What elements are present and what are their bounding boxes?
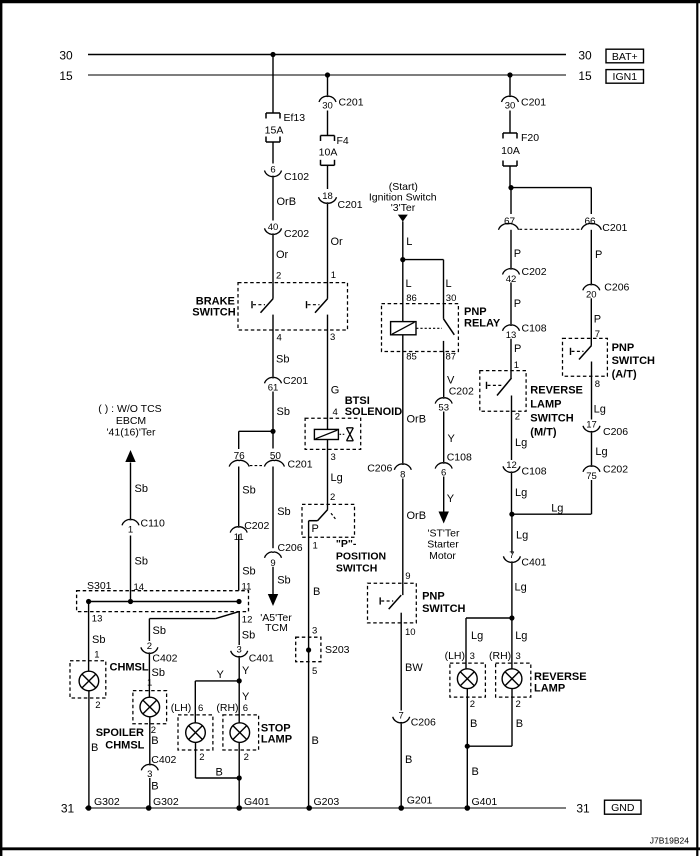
svg-text:1: 1 [94,650,99,661]
wire LH stop to join (B) [196,742,205,778]
svg-text:C102: C102 [284,171,309,183]
wire C402-2 to spoiler lamp (Sb) [147,654,165,697]
svg-text:PNP: PNP [422,591,445,603]
wire branch to relay contact 30 [403,260,457,319]
wire C202 to brake switch (Or) [273,235,289,299]
connector C110 pin 1 [122,517,165,535]
wire S301 to CHMSL (Sb) [89,602,106,672]
svg-text:30: 30 [322,101,333,112]
wire C202-53 to C108-6 (Y) [444,412,456,463]
svg-text:Sb: Sb [242,485,255,497]
wire spoiler lamp to C402-3 (B) [150,717,159,764]
svg-text:S301: S301 [87,580,112,592]
svg-text:Y: Y [242,665,250,677]
svg-text:Sb: Sb [276,354,289,366]
svg-text:C401: C401 [249,652,274,664]
svg-text:2: 2 [515,412,520,423]
svg-text:8: 8 [595,379,600,390]
wire bus15 to C201-30 (wire4) [509,75,511,96]
junction bus30/wire1 [270,52,275,57]
svg-text:C206: C206 [603,426,628,438]
wire C108-13 to reverse lamp switch (P) [511,339,521,378]
connector C201 pin 61 [265,375,309,394]
svg-text:C108: C108 [522,322,547,334]
svg-text:LAMP: LAMP [261,734,292,746]
svg-text:B: B [151,780,158,792]
wire 67 to C202-42 (P) [511,230,521,268]
wire relay87 to C202-53 (V) [444,352,455,398]
wire relay85 to C206-8 (OrB) [403,335,426,464]
connector C402 pin 2 [141,641,178,664]
svg-text:2: 2 [95,700,100,711]
svg-text:C206: C206 [367,462,392,474]
wire S203 to G203 (B) [309,650,319,808]
svg-text:C201: C201 [521,96,546,108]
svg-text:Lg: Lg [515,630,527,642]
svg-text:BTSI: BTSI [345,395,370,407]
svg-text:CHMSL: CHMSL [105,740,144,752]
svg-text:Sb: Sb [277,506,290,518]
svg-text:C402: C402 [152,653,177,665]
connector C206 pin 17 [583,420,628,438]
svg-text:SWITCH: SWITCH [192,306,235,318]
wire to RH stop lamp (Y) [239,681,250,723]
BTSI valve symbol [340,428,354,441]
PNP switch (A/T) box [563,338,608,376]
wire C201-18 to brake switch (Or) [328,204,344,299]
PNP switch box [368,583,417,623]
connector C206 pin 9 [265,542,303,569]
svg-text:4: 4 [333,407,338,418]
svg-text:Y: Y [242,691,250,703]
connector C206 pin 7 [393,711,436,729]
svg-text:IGN1: IGN1 [613,71,638,83]
svg-text:3: 3 [331,452,336,463]
svg-text:C202: C202 [449,385,474,397]
wire to relay coil 86 (L) [403,260,417,322]
connector C202 pin 42 [503,266,547,285]
svg-text:GND: GND [611,802,635,814]
ground G203 [306,796,339,811]
svg-text:C110: C110 [141,517,165,529]
label ST Ter Starter Motor [427,528,460,562]
wire bus15 to C201-30 [327,75,329,96]
svg-text:67: 67 [504,217,516,228]
arrow to starter motor [439,512,449,524]
svg-text:REVERSE: REVERSE [530,384,583,396]
svg-text:Sb: Sb [277,406,290,418]
wire brake sw to BTSI (G) [328,315,340,430]
svg-text:L: L [406,236,412,248]
wire S301 pin12 to spoiler branch [149,612,239,641]
svg-text:6: 6 [243,703,248,714]
svg-text:C401: C401 [521,557,546,569]
svg-text:BAT+: BAT+ [612,51,638,63]
svg-text:3: 3 [237,645,242,656]
svg-text:S203: S203 [325,644,350,656]
svg-text:Lg: Lg [515,581,527,593]
svg-text:31: 31 [61,801,75,815]
label 15 right [578,69,592,83]
fuse F4 10A [319,135,349,166]
svg-text:C108: C108 [522,465,547,477]
svg-text:P: P [514,298,521,310]
svg-text:'41(16)'Ter: '41(16)'Ter [107,426,156,438]
svg-text:1: 1 [331,270,336,281]
lamp STOP RH [223,715,259,750]
svg-text:9: 9 [405,571,410,582]
junction stop lamp split [237,678,242,683]
svg-text:B: B [216,766,223,778]
svg-text:7: 7 [509,550,514,561]
bus 30 (BAT+) horizontal wire [88,54,566,56]
svg-text:C201: C201 [288,459,313,471]
svg-text:Starter: Starter [427,539,459,551]
wire LH reverse to ground join (B) [467,689,479,809]
splice S203 box [296,637,321,662]
svg-text:G: G [331,385,340,397]
BAT+ terminal box [606,49,644,63]
connector C402 pin 3 [141,754,176,780]
svg-text:B: B [91,742,98,754]
wire C108-6 to starter arrow (Y) [444,477,455,512]
connector C202 pin 75 [583,463,628,482]
IGN1 terminal box [606,70,644,84]
junction bus15/wire4 [507,72,512,77]
wire to pin 67 [510,188,512,214]
ground G201 [398,794,432,810]
relay pin labels [406,352,456,363]
svg-text:TCM: TCM [265,622,288,634]
svg-text:4: 4 [277,332,282,343]
svg-text:30: 30 [505,101,516,112]
brake switch contact 2 (wire2 side) [307,299,328,313]
svg-text:(LH): (LH) [171,702,191,714]
label (RH) 6 [216,702,248,714]
GND terminal box [605,800,642,814]
solenoid BTSI coil [314,429,338,439]
svg-text:30: 30 [59,48,73,62]
connector C201 pin 30 (wire2) [319,96,364,111]
wire ignition to relay junction (L) [403,221,413,259]
svg-text:(RH): (RH) [216,702,238,714]
lamp REVERSE LH [450,663,486,697]
wire F20 to junction [509,166,511,188]
svg-text:Ef13: Ef13 [284,112,306,124]
junction reverse ground join [465,744,470,749]
label REVERSE LAMP SWITCH (M/T) [530,384,583,438]
lamp SPOILER CHMSL [133,691,167,724]
label S301 [87,580,112,592]
svg-text:C108: C108 [447,451,472,463]
svg-text:B: B [405,754,412,766]
svg-text:SOLENOID: SOLENOID [345,406,403,418]
connector C202 pin 11 [230,520,269,543]
connector C201 pin 18 (cup) [319,191,363,211]
svg-text:Or: Or [331,236,344,248]
svg-text:86: 86 [406,293,417,304]
svg-text:SWITCH: SWITCH [530,412,573,424]
wire join stop lamps [196,766,240,778]
connector C202 pin 53 [435,385,474,413]
connector C108 pin 12 [503,460,547,477]
label (LH) 3 reverse [445,650,475,662]
svg-text:1: 1 [313,540,318,551]
connector C206 pin 20 [583,282,630,301]
svg-text:LAMP: LAMP [534,682,565,694]
svg-text:(LH): (LH) [445,650,465,662]
svg-text:B: B [313,586,320,598]
svg-text:2: 2 [147,641,152,652]
wire PNP switch to C206-7 (BW) [401,613,423,711]
label W/O TCS EBCM [98,403,161,439]
svg-text:Sb: Sb [277,574,290,586]
svg-text:'3'Ter: '3'Ter [391,202,416,214]
wire C206-9 to TCM arrow (Sb) [273,567,291,595]
svg-text:Y: Y [217,669,225,681]
BTSI solenoid box [305,418,361,449]
svg-text:G203: G203 [314,796,340,808]
P position switch box [302,504,355,537]
wire S301 to C110 (Sb) [131,536,148,602]
wire bus30 to fuse Ef13 [272,55,274,114]
svg-text:10A: 10A [319,146,338,158]
svg-text:Or: Or [276,249,289,261]
svg-text:2: 2 [330,492,335,503]
svg-text:LAMP: LAMP [530,398,561,410]
wire A/T branch merge [512,502,591,514]
svg-text:F4: F4 [337,135,349,147]
svg-text:Lg: Lg [515,487,527,499]
svg-text:10A: 10A [501,145,520,157]
wire C206-7 to G201 (B) [401,723,412,808]
svg-text:85: 85 [406,352,417,363]
svg-text:87: 87 [446,352,457,363]
svg-text:31: 31 [576,801,590,815]
label PNP SWITCH [422,591,465,615]
svg-text:6: 6 [270,164,275,175]
svg-text:C206: C206 [278,542,303,554]
svg-text:C202: C202 [284,228,309,240]
svg-text:40: 40 [268,222,279,233]
wire C201-30 to fuse F4 [327,111,329,136]
svg-text:C202: C202 [603,463,628,475]
wire P-switch to S203 (B) [309,521,321,650]
lamp CHMSL [70,661,106,698]
svg-text:C402: C402 [151,754,176,766]
PNP switch (A/T) contact [571,346,592,360]
svg-text:3: 3 [516,651,521,662]
svg-text:POSITION: POSITION [336,551,386,563]
wire C401-7 to lamp junction (Lg) [512,563,527,618]
svg-text:C206: C206 [604,282,629,294]
arrow to EBCM [125,450,135,462]
bus 15 (IGN1) horizontal wire [88,74,566,76]
svg-text:17: 17 [586,420,597,431]
wire A/T switch to C206-17 (Lg) [592,362,606,420]
connector C201 pins 67/66 (inline pair) [499,217,628,235]
svg-text:B: B [312,735,319,747]
svg-text:Sb: Sb [242,566,255,578]
wire C102 to C202 (OrB) [273,177,296,221]
connector C108 pin 6 [435,451,472,478]
svg-text:66: 66 [584,217,596,228]
svg-text:2: 2 [470,699,475,710]
label (RH) 3 reverse [489,650,521,662]
junction reverse lamp split [509,615,514,620]
svg-text:3: 3 [330,332,335,343]
wire C108-12 to merge junction (Lg) [512,473,528,514]
wire C401-3 to stop junction (Y) [239,657,250,681]
label 30 right [578,48,592,62]
svg-text:7: 7 [399,711,404,722]
svg-text:12: 12 [506,460,517,471]
label CHMSL [110,661,149,673]
wire 66 to C206-20 (P) [591,230,602,284]
splice S301 box [77,591,249,612]
wire C201-61 down (Sb) [273,392,290,432]
label (LH) 6 [171,702,203,714]
svg-text:B: B [151,735,158,747]
wire Ef13 to C102 [272,142,274,164]
connector C401 pin 3 [231,645,274,665]
svg-text:SWITCH: SWITCH [422,603,465,615]
brake switch contact 1 (wire1 side) [252,299,273,313]
svg-text:EBCM: EBCM [116,415,146,427]
svg-text:3: 3 [312,626,317,637]
drawing number J7B19B24 [650,836,689,846]
svg-text:Lg: Lg [515,437,527,449]
wire branch to pin 76 [239,431,273,449]
svg-text:REVERSE: REVERSE [534,671,587,683]
svg-text:Lg: Lg [594,403,606,415]
svg-text:13: 13 [92,614,103,625]
svg-text:Sb: Sb [135,483,148,495]
svg-text:G302: G302 [153,796,179,808]
wire C201-30 to fuse F20 [509,111,511,134]
svg-text:L: L [446,278,452,290]
svg-text:Lg: Lg [471,630,483,642]
svg-text:Sb: Sb [92,634,105,646]
wire C206-17 to C202-75 (Lg) [592,432,608,465]
svg-text:Lg: Lg [595,446,607,458]
S301 internal bus wire [89,601,239,603]
label 31 left [61,801,75,815]
wire branch to LH stop lamp [195,669,239,723]
label 30 left [59,48,73,62]
wire pin76 to C202 (Sb) [239,467,256,527]
svg-text:Lg: Lg [331,472,343,484]
fuse Ef13 15A [265,112,306,142]
svg-text:B: B [470,718,477,730]
svg-text:18: 18 [322,191,333,202]
svg-text:B: B [472,766,479,778]
svg-text:L: L [406,278,412,290]
svg-text:SWITCH: SWITCH [336,563,377,575]
connector C201 pins 76/50 (inline pair) [229,451,313,471]
junction wire4 split [508,185,513,190]
label (Start) Ignition Switch '3'Ter [369,181,437,214]
wire F4 to C201-18 [327,165,329,189]
label REVERSE LAMP [534,671,587,695]
svg-text:2: 2 [199,752,204,763]
wire RH reverse join (B) [467,689,523,747]
ground G302 (CHMSL) [86,796,120,811]
svg-text:C202: C202 [244,520,269,532]
svg-text:OrB: OrB [407,414,427,426]
label P POSITION SWITCH [336,538,386,575]
label PNP RELAY [464,306,501,330]
label BRAKE SWITCH [192,296,235,319]
svg-text:Y: Y [447,493,455,505]
junction reverse merge [509,512,514,517]
svg-text:CHMSL: CHMSL [110,661,149,673]
svg-text:6: 6 [198,703,203,714]
arrow from ignition switch [398,215,408,222]
lamp REVERSE RH [496,663,531,697]
svg-text:10: 10 [405,627,416,638]
ground G401 (stop) [236,796,269,811]
wire C402-3 to G302 (B) [150,778,159,808]
svg-text:P: P [595,249,602,261]
wire branch to LH reverse lamp [466,618,512,669]
wire C202-75 to merge [591,480,593,514]
wire BTSI to P-switch (Lg) [328,440,343,510]
relay contact blade [444,319,455,352]
svg-text:Lg: Lg [516,530,528,542]
svg-text:SWITCH: SWITCH [612,355,655,367]
wire reverse switch to C108-12 (Lg) [512,396,528,461]
wire C206-20 to PNP A/T switch (P) [591,298,601,345]
svg-text:C201: C201 [338,199,363,211]
svg-text:( ) : W/O TCS: ( ) : W/O TCS [98,403,161,415]
connector C201 pin 30 (wire4) [502,96,547,111]
wire brake sw to C201 (Sb) [273,315,289,377]
svg-text:2: 2 [244,752,249,763]
svg-text:5: 5 [312,666,317,677]
connector C401 pin 7 [503,550,546,569]
label 31 right [576,801,590,815]
wire C202-42 to C108-13 (P) [511,283,521,325]
svg-text:Lg: Lg [551,502,563,514]
S301 junction pin14 [128,599,133,604]
svg-text:"P"-: "P"- [336,538,357,550]
wire merge to C401-7 (Lg) [512,514,528,553]
label STOP LAMP [261,723,292,746]
svg-text:30: 30 [578,48,592,62]
label pin 14 [134,582,145,593]
reverse lamp switch contact [487,378,512,396]
svg-text:1: 1 [128,525,133,536]
svg-text:G302: G302 [94,796,120,808]
svg-text:(RH): (RH) [489,650,511,662]
svg-text:C201: C201 [339,96,364,108]
svg-text:(A/T): (A/T) [612,369,637,381]
svg-text:BW: BW [405,662,423,674]
svg-text:Sb: Sb [153,625,166,637]
arrow to TCM [268,594,278,606]
PNP switch contact [380,595,401,609]
svg-text:14: 14 [134,582,145,593]
junction bus15/wire2 [325,72,330,77]
fuse F20 10A [501,132,539,166]
svg-text:12: 12 [242,615,253,626]
svg-text:C206: C206 [411,716,436,728]
svg-text:RELAY: RELAY [464,317,501,329]
junction wire1 split to 76/50 [270,429,275,434]
label SPOILER CHMSL [96,727,145,752]
svg-text:OrB: OrB [407,510,427,522]
